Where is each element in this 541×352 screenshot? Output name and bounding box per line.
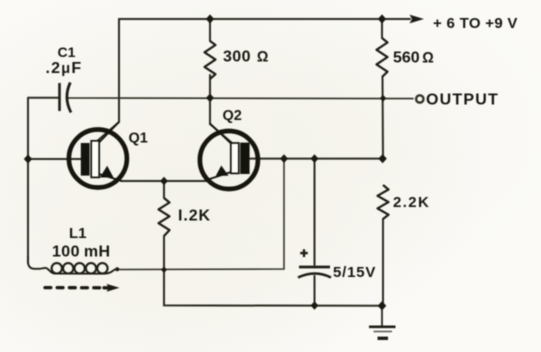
wire left vertical from rail to Q1 collector — [96, 19, 119, 142]
node rail/560 — [378, 14, 386, 23]
wire bottom return line — [164, 236, 382, 306]
wire Q2 base lead to right vertical — [250, 158, 383, 160]
node rail/300 — [206, 14, 214, 23]
arrow on supply rail — [410, 15, 425, 24]
wire Q1 base lead — [28, 158, 82, 160]
node emitters/1.2K — [160, 177, 168, 186]
node L1/1.2K — [161, 266, 167, 273]
wire emitter bus Q1-Q2 — [121, 180, 206, 182]
svg-text:I.2K: I.2K — [178, 208, 211, 225]
resistor 2.2K — [378, 185, 389, 219]
svg-text:300Ω: 300Ω — [223, 49, 269, 66]
svg-text:Q1: Q1 — [129, 131, 148, 147]
wire L1 right to 1.2K node and to Q2 base drop — [117, 159, 284, 270]
transistor Q1 — [69, 122, 127, 188]
svg-text:2.2K: 2.2K — [393, 194, 430, 211]
svg-text:5/15V: 5/15V — [333, 264, 376, 281]
wire output horizontal — [68, 97, 413, 100]
svg-text:+ 6 TO +9 V: + 6 TO +9 V — [433, 15, 518, 32]
resistor 560 ohm — [377, 38, 388, 77]
svg-text:Q2: Q2 — [223, 108, 242, 124]
output terminal circle — [416, 95, 423, 102]
node base/cap — [311, 154, 319, 163]
wire 300ohm verticals — [209, 19, 211, 98]
node base/down-wire — [280, 154, 288, 163]
node bottom/cap — [311, 301, 319, 310]
coil loops — [52, 263, 108, 273]
wire top supply rail — [119, 18, 410, 20]
node base/560-2.2K — [378, 154, 386, 163]
coil right end blob — [115, 267, 119, 271]
wire 1.2K top lead — [163, 181, 165, 198]
wire 560ohm to base-node vertical — [382, 19, 383, 306]
capacitor C1 — [60, 83, 72, 113]
node Q1 base tee — [24, 154, 32, 163]
dashed arrow under L1 — [45, 284, 120, 292]
ground symbol — [369, 306, 396, 338]
resistor 300 ohm — [205, 41, 216, 79]
resistor 1.2K — [159, 198, 170, 236]
svg-text:C1: C1 — [58, 44, 76, 60]
node out/560 — [380, 95, 386, 102]
svg-text:L1: L1 — [69, 225, 87, 242]
svg-text:100mH: 100mH — [52, 244, 111, 261]
svg-text:OUTPUT: OUTPUT — [426, 92, 499, 109]
capacitor 5/15V electrolytic — [298, 249, 331, 277]
wire 5/15V cap leads — [314, 159, 316, 306]
wire Q2 collector lead — [210, 98, 232, 143]
svg-text:560Ω: 560Ω — [393, 50, 434, 67]
inductor L1 — [28, 256, 118, 274]
node out/Q2col — [206, 94, 214, 103]
node bottom/gnd — [378, 301, 387, 310]
svg-text:.2μF: .2μF — [46, 60, 83, 77]
wire left lead of C1 and left rail down to L1 — [28, 98, 58, 263]
transistor Q2 — [200, 124, 258, 190]
